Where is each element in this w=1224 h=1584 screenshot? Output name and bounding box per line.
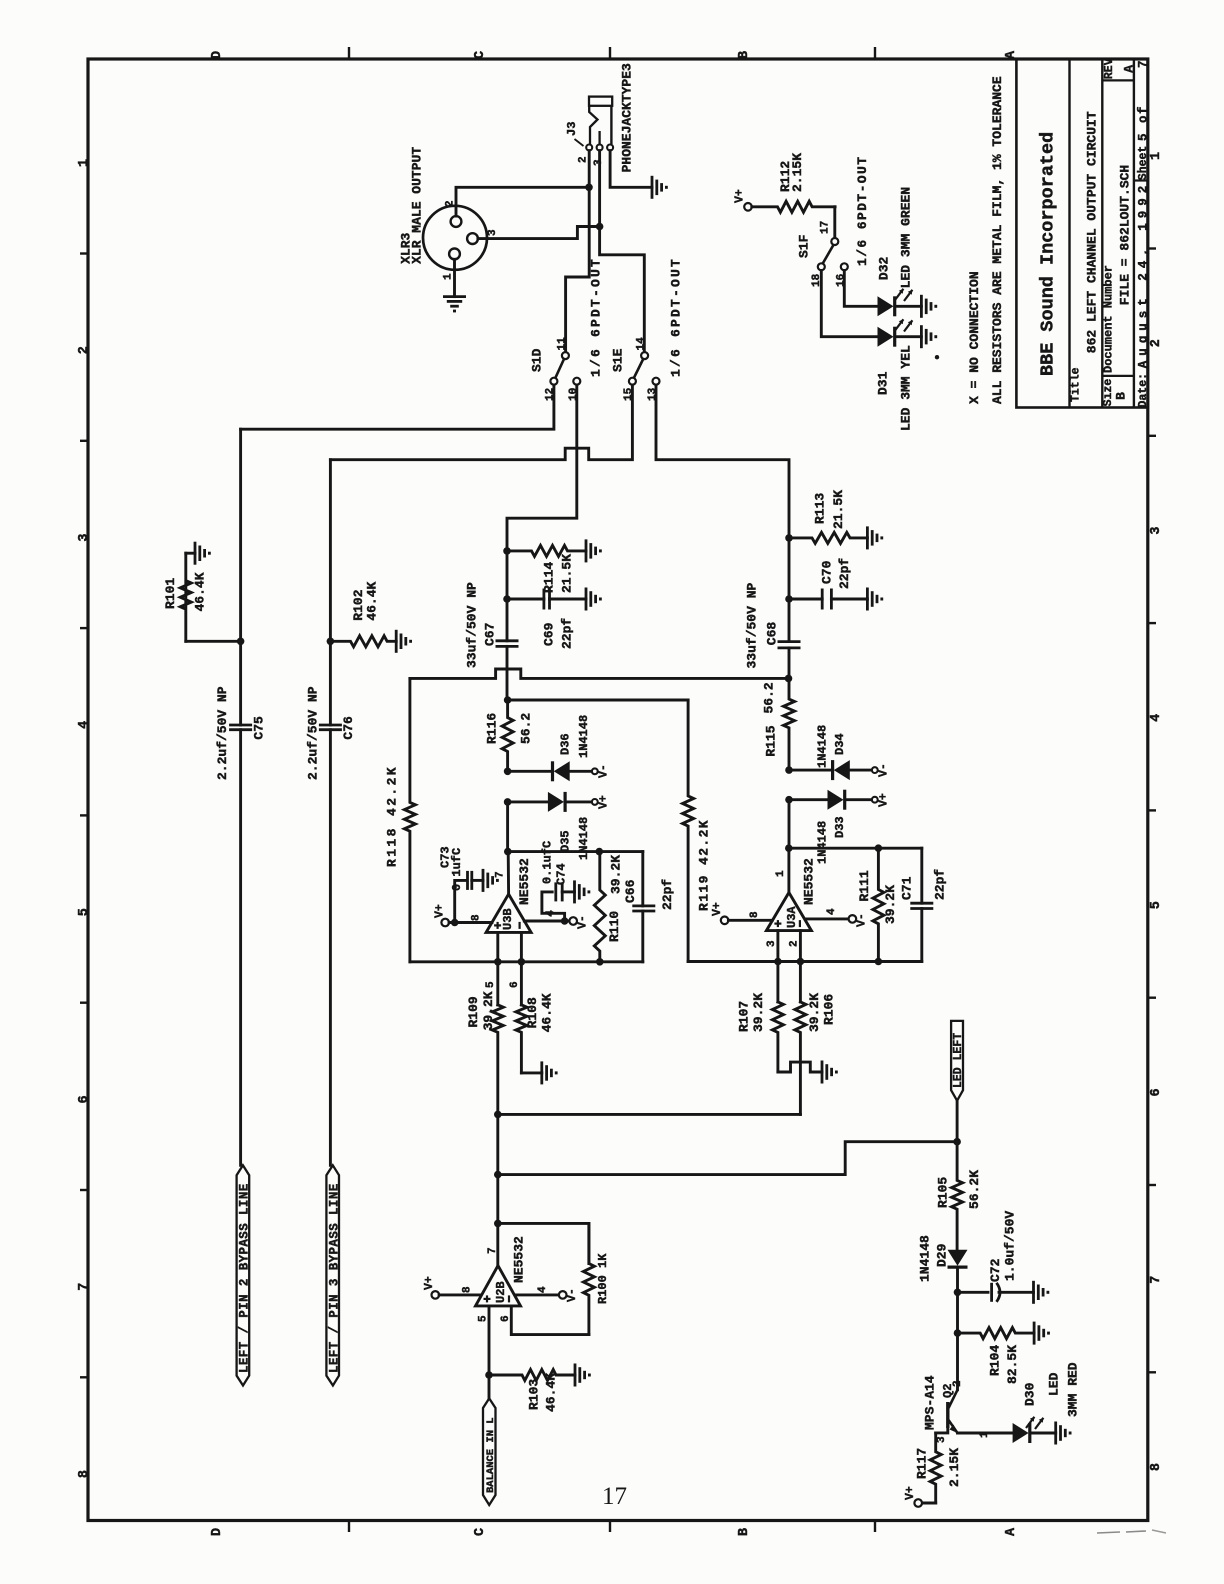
- svg-text:C74: C74: [554, 863, 568, 885]
- svg-text:LED: LED: [1047, 1372, 1062, 1396]
- pencil marks bottom right: [1097, 1532, 1120, 1533]
- ground at C73: [482, 869, 485, 892]
- XLR3 pin 2 contact: [451, 216, 462, 227]
- svg-text:3: 3: [936, 1436, 948, 1443]
- resistor R119: [683, 700, 694, 962]
- svg-text:C66: C66: [623, 879, 638, 903]
- capacitor C74 bypass: [542, 892, 565, 921]
- svg-text:8: 8: [462, 1286, 474, 1293]
- svg-text:1: 1: [443, 273, 455, 280]
- svg-text:A: A: [1121, 65, 1136, 73]
- svg-text:R106: R106: [822, 994, 837, 1025]
- svg-text:21.5K: 21.5K: [560, 554, 575, 593]
- svg-text:1N4148: 1N4148: [577, 715, 591, 758]
- svg-text:5 of: 5 of: [1136, 105, 1150, 141]
- svg-text:ALL RESISTORS ARE METAL FILM,: ALL RESISTORS ARE METAL FILM, 1% TOLERAN…: [990, 76, 1005, 404]
- wire S1D pin12 to C75 net: [241, 385, 554, 429]
- zone ticks right edge: [1148, 247, 1156, 249]
- wire S1D pin10 down to C67: [507, 385, 577, 641]
- svg-text:C68: C68: [764, 622, 779, 646]
- resistor R118: [404, 678, 415, 961]
- svg-text:R110: R110: [607, 911, 622, 942]
- XLR3 pin 3 contact: [467, 233, 478, 244]
- svg-text:V+: V+: [904, 1486, 917, 1500]
- svg-text:D: D: [210, 51, 225, 59]
- svg-text:8: 8: [470, 914, 482, 921]
- resistor R110 feedback: [594, 852, 605, 962]
- ground at J3 sleeve: [651, 176, 654, 199]
- svg-text:46.4K: 46.4K: [543, 1373, 558, 1412]
- U3B pin5 lead: [496, 932, 499, 1005]
- resistor R108: [516, 1005, 527, 1073]
- U3B pin4 V- terminal: [524, 920, 569, 923]
- switch S1D pin 12 contact: [550, 378, 557, 385]
- wire to U3A pin1 junction: [788, 800, 791, 849]
- svg-text:V+: V+: [434, 904, 447, 918]
- svg-text:R117: R117: [915, 1448, 930, 1479]
- svg-text:U3A: U3A: [785, 906, 799, 928]
- wire S1F pin16 to D32: [844, 270, 877, 306]
- svg-text:R100 1K: R100 1K: [596, 1253, 610, 1304]
- U2B pin8 V+ terminal: [432, 1291, 440, 1299]
- svg-text:6: 6: [500, 1315, 512, 1322]
- ground at D31: [920, 325, 923, 348]
- ground at C69: [585, 588, 588, 611]
- J3 ring contact stem: [598, 131, 600, 144]
- junction C67/R116/R119: [504, 696, 512, 704]
- ground at R102: [395, 630, 398, 653]
- svg-text:4: 4: [826, 908, 838, 915]
- svg-text:33uf/50V NP: 33uf/50V NP: [465, 582, 480, 668]
- switch S1E arm: [634, 359, 643, 378]
- junction C69 tap: [503, 595, 511, 603]
- svg-text:LEFT / PIN 2 BYPASS LINE: LEFT / PIN 2 BYPASS LINE: [237, 1183, 251, 1373]
- svg-text:B: B: [1113, 392, 1128, 400]
- svg-text:LED 3MM YEL: LED 3MM YEL: [899, 345, 914, 431]
- wire U2B output vertical (to R109): [496, 1114, 499, 1265]
- svg-text:D35: D35: [558, 830, 572, 852]
- svg-text:46.4K: 46.4K: [540, 993, 555, 1032]
- resistor R102: [330, 636, 396, 647]
- wire R106 to U2B output: [498, 1113, 801, 1116]
- capacitor C67: [496, 639, 519, 642]
- switch S1F pin 17 contact: [831, 238, 838, 245]
- svg-text:4: 4: [537, 1286, 549, 1293]
- svg-text:D30: D30: [1022, 1382, 1037, 1406]
- svg-text:S1F: S1F: [797, 234, 812, 258]
- svg-text:R107: R107: [736, 1001, 751, 1032]
- svg-text:V-: V-: [577, 915, 590, 929]
- capacitor C76: [319, 724, 342, 727]
- input rail under U3A: [688, 960, 922, 963]
- svg-text:6: 6: [77, 1095, 92, 1103]
- U3B output feedback wire to R110/C66: [508, 850, 643, 853]
- R107 ground path with hop over R106: [778, 1062, 822, 1072]
- svg-text:V-: V-: [878, 763, 891, 777]
- svg-text:A: A: [1004, 50, 1019, 59]
- svg-text:82.5K: 82.5K: [1005, 1345, 1020, 1384]
- svg-text:R119 42.2K: R119 42.2K: [697, 819, 712, 911]
- svg-text:17: 17: [602, 1483, 627, 1510]
- ground at C74: [573, 880, 576, 903]
- transistor Q2 MPS-A14: [956, 1333, 959, 1390]
- svg-text:11: 11: [557, 337, 569, 351]
- junction R114 tap: [503, 547, 511, 555]
- feedback rail under U3B: [410, 960, 643, 963]
- svg-text:U3B: U3B: [501, 908, 515, 930]
- svg-text:2: 2: [1149, 339, 1164, 347]
- switch S1E pin 14 contact: [641, 352, 648, 359]
- wire J3 tip down to S1D pin 11: [566, 151, 590, 352]
- resistor R112: [752, 201, 835, 212]
- svg-text:C71: C71: [899, 876, 914, 900]
- svg-text:BBE Sound Incorporated: BBE Sound Incorporated: [1038, 132, 1059, 376]
- zone ticks top edge: [348, 47, 350, 59]
- svg-text:5: 5: [1149, 901, 1164, 909]
- ground at C72: [1032, 1281, 1035, 1304]
- svg-text:1N4148: 1N4148: [577, 817, 591, 860]
- resistor R109: [492, 1005, 503, 1115]
- svg-text:39.2K: 39.2K: [807, 993, 822, 1032]
- wire R116 node to R119: [508, 699, 688, 702]
- zone ticks bottom edge: [348, 1520, 350, 1532]
- svg-text:22pf: 22pf: [933, 869, 948, 900]
- U3A output wire to R111/C71: [789, 847, 922, 850]
- LED D32 green: [878, 296, 894, 316]
- svg-text:R116: R116: [484, 713, 499, 744]
- U3A pin1 output lead: [787, 848, 790, 892]
- junction C75/R101: [237, 638, 245, 646]
- J3 contact circles: [586, 145, 592, 151]
- svg-text:17: 17: [820, 221, 832, 234]
- svg-text:C76: C76: [341, 716, 356, 740]
- svg-text:C: C: [473, 51, 488, 59]
- wire S1E pin13 to C68 net: [656, 385, 789, 642]
- svg-text:V-: V-: [856, 913, 869, 927]
- ground at R113: [866, 526, 869, 549]
- junction C72 tap: [954, 1289, 962, 1297]
- svg-text:22pf: 22pf: [660, 879, 675, 910]
- svg-text:4: 4: [77, 721, 92, 729]
- svg-text:2.15K: 2.15K: [947, 1448, 962, 1487]
- resistor R114: [507, 545, 586, 556]
- U3B pin7 output lead: [507, 852, 510, 895]
- svg-text:22pf: 22pf: [560, 618, 575, 649]
- svg-text:Title: Title: [1069, 367, 1082, 402]
- svg-text:56.2: 56.2: [518, 713, 533, 744]
- resistor R105: [952, 1142, 963, 1250]
- svg-text:D: D: [210, 1528, 225, 1536]
- wire to C66 top: [641, 852, 644, 906]
- capacitor C69: [507, 598, 544, 601]
- svg-text:D33: D33: [833, 816, 847, 838]
- svg-text:1: 1: [77, 159, 92, 167]
- U2B pin4 V- terminal: [515, 1293, 559, 1296]
- wire XLR pin3 to jack ring net: [478, 227, 600, 239]
- junction LED LEFT node: [953, 1138, 961, 1146]
- capacitor C75: [229, 724, 252, 727]
- svg-text:V+: V+: [598, 795, 611, 809]
- svg-text:V+: V+: [423, 1276, 436, 1290]
- switch S1F pin 16 contact: [841, 263, 848, 270]
- diode D35 to V+: [508, 800, 548, 803]
- capacitor C68: [778, 640, 801, 643]
- svg-text:6: 6: [509, 981, 521, 988]
- svg-text:8: 8: [1149, 1463, 1164, 1471]
- svg-text:D31: D31: [876, 371, 891, 395]
- V+ terminal for R112: [744, 203, 752, 211]
- svg-text:R109: R109: [466, 996, 481, 1027]
- wire J3 ring down to S1E pin 14: [600, 151, 645, 352]
- LED D31 yellow: [878, 327, 894, 347]
- svg-text:16: 16: [836, 274, 848, 287]
- svg-text:Document Number: Document Number: [1101, 265, 1115, 373]
- svg-text:7: 7: [495, 871, 507, 878]
- svg-text:4: 4: [1149, 714, 1164, 722]
- svg-text:6: 6: [1149, 1088, 1164, 1096]
- svg-text:862 LEFT CHANNEL OUTPUT CIRCUI: 862 LEFT CHANNEL OUTPUT CIRCUIT: [1085, 111, 1100, 353]
- capacitor C70: [789, 598, 822, 601]
- connector XLR3 body circle: [423, 206, 487, 270]
- U2B pin5 lead to BALANCE IN: [488, 1306, 491, 1399]
- svg-text:2: 2: [952, 1380, 964, 1387]
- ground at R103: [574, 1364, 577, 1387]
- svg-text:R103: R103: [526, 1379, 541, 1410]
- junction R110 top: [596, 848, 604, 856]
- svg-text:2.2uf/50V NP: 2.2uf/50V NP: [215, 686, 230, 780]
- U3A pin4 V- terminal: [806, 917, 849, 920]
- switch S1D arm: [555, 359, 564, 378]
- C67 lower vertical to R116 node: [506, 646, 509, 700]
- svg-text:S1D: S1D: [530, 348, 545, 372]
- svg-text:46.4K: 46.4K: [193, 572, 208, 611]
- resistor R104: [958, 1328, 1035, 1339]
- svg-text:BALANCE IN L: BALANCE IN L: [485, 1417, 497, 1493]
- svg-text:1N4148: 1N4148: [815, 821, 829, 864]
- svg-text:D36: D36: [558, 733, 572, 755]
- junction U3B output: [504, 848, 512, 856]
- resistor R106: [795, 1002, 806, 1115]
- svg-text:3: 3: [766, 940, 778, 947]
- op-amp U2B: [476, 1266, 521, 1306]
- svg-text:0.1ufC: 0.1ufC: [450, 848, 464, 891]
- switch S1F arm: [823, 245, 834, 263]
- input arrow BALANCE IN L: [483, 1398, 496, 1505]
- svg-text:3: 3: [77, 533, 92, 541]
- svg-text:LED LEFT: LED LEFT: [952, 1033, 965, 1088]
- svg-text:C69: C69: [542, 622, 557, 646]
- svg-text:2: 2: [77, 346, 92, 354]
- resistor R115: [784, 678, 795, 770]
- wire C76 net vertical: [329, 460, 332, 725]
- svg-text:C: C: [473, 1528, 488, 1536]
- switch S1E pin 13 contact: [653, 378, 660, 385]
- wire U2B output to LED LEFT net: [498, 1142, 957, 1175]
- svg-text:39.2K: 39.2K: [751, 993, 766, 1032]
- resistor R101: [186, 640, 241, 643]
- svg-text:Sheet: Sheet: [1137, 146, 1150, 181]
- junction D34 tap: [785, 766, 793, 774]
- resistor R117: [930, 1433, 941, 1503]
- switch S1E pin 15 contact: [629, 378, 636, 385]
- U3B pin8 V+ terminal: [441, 919, 449, 927]
- U3A pin8 V+ terminal: [721, 917, 729, 925]
- svg-text:B: B: [737, 51, 752, 59]
- svg-text:S1E: S1E: [611, 348, 626, 372]
- svg-text:22pf: 22pf: [837, 558, 852, 589]
- capacitor C66 feedback: [632, 905, 655, 908]
- ground at R104: [1033, 1322, 1036, 1345]
- switch S1D pin 11 contact: [562, 352, 569, 359]
- svg-text:NE5532: NE5532: [511, 1236, 526, 1283]
- svg-text:3: 3: [487, 229, 499, 236]
- wire Q2 emitter to D30: [958, 1432, 1013, 1435]
- svg-text:5: 5: [485, 981, 497, 988]
- diode D33 to V+: [789, 798, 828, 801]
- svg-text:D32: D32: [877, 256, 892, 280]
- ground at R107: [821, 1061, 824, 1084]
- bypass arrow LEFT / PIN 2 BYPASS LINE: [237, 1165, 250, 1385]
- svg-text:1: 1: [775, 870, 787, 877]
- svg-text:1.0uf/50V: 1.0uf/50V: [1002, 1211, 1017, 1281]
- XLR3 pin 1 contact: [449, 249, 460, 260]
- wire node to U3B pin7 junction: [506, 802, 509, 852]
- svg-text:U2B: U2B: [494, 1281, 508, 1303]
- junction R113 tap: [785, 534, 793, 542]
- svg-text:2.2uf/50V NP: 2.2uf/50V NP: [305, 686, 320, 780]
- svg-text:MPS-A14: MPS-A14: [923, 1375, 938, 1430]
- svg-text:R118 42.2K: R118 42.2K: [384, 765, 399, 867]
- ground at XLR pin1: [443, 295, 466, 298]
- diode D29: [948, 1250, 968, 1266]
- op-amp U3A: [766, 893, 811, 931]
- svg-text:R115: R115: [764, 725, 779, 756]
- svg-text:A: A: [1004, 1527, 1019, 1536]
- svg-text:REV: REV: [1103, 58, 1116, 79]
- bypass arrow LEFT / PIN 3 BYPASS LINE: [326, 1165, 339, 1385]
- svg-text:X = NO CONNECTION: X = NO CONNECTION: [967, 271, 982, 404]
- title block frame: [1016, 59, 1147, 408]
- svg-text:1/6 6PDT-OUT: 1/6 6PDT-OUT: [589, 257, 604, 377]
- junction LED drive wire: [494, 1171, 502, 1179]
- svg-text:XLR MALE OUTPUT: XLR MALE OUTPUT: [410, 147, 425, 264]
- resistor R113: [789, 532, 867, 543]
- junction C70 tap: [785, 595, 793, 603]
- Q2 base lead: [936, 1428, 948, 1433]
- svg-text:7: 7: [1149, 1276, 1164, 1284]
- svg-text:C75: C75: [252, 716, 267, 740]
- junction D36 tap: [504, 768, 512, 776]
- svg-text:1N4148: 1N4148: [917, 1235, 932, 1282]
- svg-text:NE5532: NE5532: [517, 858, 532, 905]
- svg-text:NE5532: NE5532: [802, 858, 817, 905]
- svg-text:B: B: [737, 1528, 752, 1536]
- junction D33 tap: [785, 796, 793, 804]
- wire R112 to S1F pin17: [833, 207, 836, 238]
- ground at R114: [585, 539, 588, 562]
- svg-text:R113: R113: [813, 493, 828, 524]
- sheet border frame: [88, 59, 1148, 1521]
- svg-text:J3: J3: [565, 122, 579, 136]
- svg-text:R105: R105: [936, 1177, 951, 1208]
- svg-text:R104: R104: [987, 1345, 1002, 1376]
- U3A pin3 lead: [776, 931, 779, 1002]
- U2B feedback loop with R100: [498, 1223, 589, 1263]
- svg-text:39.2K: 39.2K: [481, 991, 496, 1030]
- wire C68 bottom to R118 with hop over C67: [410, 669, 789, 678]
- wire XLR pin1 to ground: [453, 259, 456, 296]
- switch S1F pin 18 contact: [818, 263, 825, 270]
- ground at D32: [920, 295, 923, 318]
- U3B pin6 lead: [520, 932, 523, 1005]
- J3 tip spring contact: [589, 106, 597, 144]
- junction R104 tap: [954, 1329, 962, 1337]
- svg-text:Date:: Date:: [1137, 373, 1150, 408]
- junction jack tip / xlr pin2: [585, 184, 593, 192]
- svg-text:5: 5: [478, 1315, 490, 1322]
- diode D34 to V-: [789, 769, 833, 772]
- svg-text:V+: V+: [878, 793, 891, 807]
- svg-text:7: 7: [487, 1247, 499, 1254]
- capacitor C72: [958, 1291, 989, 1294]
- svg-text:V+: V+: [734, 189, 747, 203]
- svg-text:R101: R101: [163, 578, 178, 609]
- switch S1D pin 10 contact: [573, 378, 580, 385]
- svg-text:8: 8: [77, 1470, 92, 1478]
- wire XLR pin2 to jack tip net: [456, 187, 589, 216]
- svg-text:R111: R111: [857, 870, 872, 901]
- svg-text:LEFT / PIN 3 BYPASS LINE: LEFT / PIN 3 BYPASS LINE: [327, 1183, 341, 1373]
- svg-text:August 24, 1992: August 24, 1992: [1136, 181, 1150, 369]
- ground at R108: [540, 1061, 543, 1084]
- svg-text:LED 3MM GREEN: LED 3MM GREEN: [899, 187, 914, 288]
- svg-text:33uf/50V NP: 33uf/50V NP: [745, 582, 760, 668]
- svg-text:3: 3: [1149, 526, 1164, 534]
- svg-text:1/6 6PDT-OUT: 1/6 6PDT-OUT: [669, 257, 684, 377]
- svg-text:5: 5: [77, 908, 92, 916]
- svg-text:C67: C67: [483, 623, 498, 646]
- svg-text:46.4K: 46.4K: [365, 581, 380, 620]
- op-amp U3B: [486, 894, 531, 932]
- resistor R107: [772, 1002, 783, 1072]
- svg-text:V+: V+: [711, 902, 724, 916]
- svg-text:V-: V-: [598, 764, 611, 778]
- svg-text:1N4148: 1N4148: [815, 725, 829, 768]
- wire J3 sleeve to ground: [610, 151, 652, 188]
- svg-text:7: 7: [1136, 60, 1150, 68]
- svg-text:C72: C72: [988, 1258, 1003, 1282]
- junction D35 tap: [504, 798, 512, 806]
- svg-text:V-: V-: [566, 1288, 579, 1302]
- capacitor C71: [910, 902, 933, 905]
- junction R106 wire: [494, 1111, 502, 1119]
- zone ticks left edge: [80, 252, 88, 254]
- wire C68 bottom junction: [788, 648, 791, 679]
- ground at C70: [866, 588, 869, 611]
- junction jack ring / xlr pin3: [596, 223, 604, 231]
- svg-text:D34: D34: [833, 733, 847, 755]
- resistor R103: [489, 1370, 575, 1381]
- LED D30: [1013, 1423, 1029, 1443]
- resistor R116: [502, 700, 513, 771]
- wire S1E pin15 to C76 net with hop: [330, 385, 632, 460]
- svg-text:C70: C70: [820, 560, 835, 584]
- svg-text:39.2K: 39.2K: [883, 885, 898, 924]
- junction R103 tap: [485, 1371, 493, 1379]
- wire C75 net vertical: [239, 429, 242, 725]
- output arrow LED LEFT: [951, 1021, 963, 1101]
- svg-text:1: 1: [1149, 152, 1164, 160]
